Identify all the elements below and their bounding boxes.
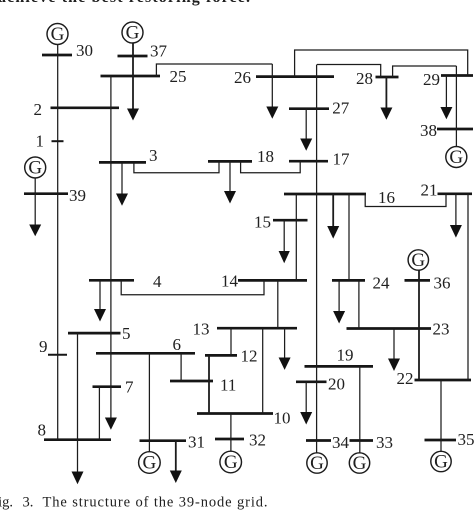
svg-text:The structure of the 39-node g: The structure of the 39-node grid. [43, 495, 268, 511]
load arrow stem on bus 15 [283, 220, 285, 252]
wire line 5-8 and load stem under bus 8 [77, 333, 79, 472]
bus 27 [289, 107, 329, 110]
load arrow stem on bus 18 [229, 161, 231, 192]
load arrow on bus 7 column [105, 418, 117, 430]
load arrow stem on bus 13 [284, 328, 286, 358]
svg-text:G: G [28, 158, 42, 179]
svg-text:13: 13 [193, 320, 210, 339]
svg-text:15: 15 [254, 213, 271, 232]
load arrow stem on bus 4 [99, 280, 101, 310]
svg-text:19: 19 [337, 346, 354, 365]
bus 7 [93, 385, 122, 388]
wire 10-32 to G32 [230, 414, 232, 452]
generator G36 [408, 250, 428, 271]
svg-text:4: 4 [153, 272, 162, 291]
bus 36 [405, 279, 431, 282]
svg-text:23: 23 [433, 320, 450, 339]
wire 29-38 to G38 [455, 66, 457, 147]
svg-text:3.: 3. [23, 495, 34, 511]
wire long vertical 26-27-17-16-19-20-34 to G34 [316, 65, 318, 454]
wire G37 stem through bus 37 and bus 25 [132, 43, 134, 110]
load arrow on bus 16 [327, 226, 339, 239]
bus 2 [51, 106, 120, 109]
wire G36-23-22 vertical [418, 270, 420, 380]
svg-text:G: G [411, 250, 425, 271]
load arrow on bus 31 [170, 471, 182, 484]
bus 25 [101, 75, 161, 78]
generator G37 [122, 22, 143, 44]
bus 14 [238, 279, 307, 282]
bus 30 [42, 54, 72, 57]
wire line 21-22 [467, 194, 469, 380]
bus 22 [415, 379, 472, 382]
svg-text:28: 28 [356, 69, 373, 88]
svg-text:27: 27 [332, 99, 350, 118]
svg-text:22: 22 [397, 369, 414, 388]
wire line 13-10 [262, 328, 264, 413]
bus 6 [96, 352, 195, 355]
bus 24 [332, 279, 365, 282]
svg-text:G: G [51, 24, 65, 45]
generator G39 [25, 157, 46, 179]
load arrow on bus 4 [94, 309, 106, 322]
load arrow stem on bus 21 [455, 194, 457, 226]
load arrow on bus 39 [29, 225, 41, 237]
load arrow on bus 26 [266, 107, 278, 119]
wire line 26-29 top loop [295, 50, 468, 77]
bus 12 [205, 354, 237, 357]
bus 35 [425, 439, 457, 442]
svg-text:G: G [310, 453, 324, 474]
wire 26 drop and load stem [271, 64, 273, 108]
svg-text:18: 18 [257, 147, 274, 166]
wire 2-25 long vertical through buses 2,3,4,5,6 to bus 7 load [110, 76, 112, 419]
bus 8 [44, 438, 111, 441]
bus 38 [437, 128, 473, 131]
svg-text:1: 1 [36, 132, 45, 151]
bus 32 [215, 438, 244, 441]
wire line 4-14 [121, 280, 264, 295]
svg-text:14: 14 [221, 272, 239, 291]
load arrow stem on bus 31 [175, 441, 177, 472]
generator G35 [431, 451, 451, 472]
load arrow stem on bus 23 [393, 329, 395, 360]
svg-text:Fig.: Fig. [0, 495, 13, 511]
wire line 28-29 [393, 66, 457, 77]
load arrow stem on bus 3 [121, 162, 123, 194]
bus 26 [256, 75, 334, 78]
svg-text:17: 17 [333, 150, 351, 169]
bus 18 [208, 160, 252, 163]
bus 4 [89, 279, 134, 282]
load arrow on bus 15 [279, 251, 290, 263]
svg-text:29: 29 [423, 70, 440, 89]
wire line 13-12 [230, 328, 232, 355]
svg-text:24: 24 [373, 274, 391, 293]
svg-text:G: G [449, 147, 463, 168]
svg-text:39: 39 [69, 186, 86, 205]
wire line 3-18 [134, 161, 219, 172]
wire 6-31 to G31 [148, 353, 150, 451]
bus 5 [68, 332, 121, 335]
svg-text:5: 5 [122, 324, 131, 343]
load arrow on bus 18 [224, 191, 236, 204]
bus 13 [217, 327, 297, 330]
svg-text:G: G [224, 452, 238, 473]
bus 39 [24, 192, 68, 195]
wire 19-33 to G33 [359, 366, 361, 452]
load arrow stem on bus 28 [385, 77, 387, 109]
svg-text:21: 21 [421, 181, 438, 200]
svg-text:30: 30 [76, 41, 93, 60]
load arrow stem on bus 20 [305, 382, 307, 413]
bus 17 [289, 160, 328, 163]
svg-text:8: 8 [38, 421, 47, 440]
svg-text:34: 34 [332, 433, 350, 452]
generator G32 [220, 451, 242, 473]
wire line 25-26 [156, 64, 272, 76]
load arrow stem on bus 16 [332, 194, 334, 227]
wire line 24-23 [358, 280, 360, 328]
svg-text:9: 9 [39, 337, 48, 356]
svg-text:16: 16 [378, 188, 395, 207]
generator G31 [139, 452, 161, 474]
svg-text:G: G [434, 452, 448, 473]
svg-text:7: 7 [125, 378, 134, 397]
load arrow under bus 8 [72, 472, 84, 485]
wire G30 to bus 30 and long left vertical through buses 2,1,39,9 to bus 8 [57, 45, 59, 440]
wire line 18-17 [241, 161, 301, 173]
svg-text:38: 38 [420, 121, 437, 140]
svg-text:6: 6 [173, 335, 182, 354]
svg-text:12: 12 [241, 347, 258, 366]
bus 10 [197, 412, 273, 415]
bus 20 [296, 380, 327, 383]
svg-text:G: G [126, 23, 140, 44]
wire line 16-24 [348, 194, 350, 280]
wire line 26-28 [317, 65, 381, 78]
load arrow on bus 24 [333, 311, 345, 324]
bus 16 [284, 193, 366, 196]
wire 22-35 to G35 [440, 380, 442, 451]
load arrow on bus 21 [450, 225, 462, 238]
load arrow on bus 3 [116, 194, 128, 206]
svg-text:26: 26 [234, 68, 251, 87]
load arrow stem on bus 27 [305, 109, 307, 140]
svg-text:2: 2 [34, 100, 43, 119]
wire line 6-11 [180, 353, 182, 381]
svg-text:achieve the best restoring for: achieve the best restoring force. [0, 0, 250, 6]
bus 1 [52, 140, 64, 142]
svg-text:37: 37 [150, 42, 168, 61]
svg-text:G: G [143, 453, 157, 474]
load arrow under bus 25 (37 column) [127, 109, 139, 121]
bus 28 [376, 76, 399, 79]
svg-text:11: 11 [220, 376, 236, 395]
load arrow stem on bus 24 [338, 280, 340, 312]
bus 31 [140, 439, 187, 442]
generator G33 [349, 453, 369, 474]
svg-text:20: 20 [328, 375, 345, 394]
bus 21 [438, 192, 473, 195]
bus 29 [441, 74, 473, 77]
load arrow on bus 20 [300, 412, 312, 425]
wire G39 stem through bus 39 [34, 178, 36, 226]
load arrow on bus 29 [440, 107, 452, 119]
load arrow on bus 23 [388, 359, 400, 372]
bus 37 [118, 55, 148, 58]
load arrow on bus 28 [380, 108, 392, 120]
svg-text:25: 25 [170, 67, 187, 86]
bus 15 [273, 219, 308, 222]
bus 19 [305, 365, 374, 368]
wire 16-15-14 vertical [295, 194, 297, 280]
bus 11 [170, 380, 213, 383]
svg-text:33: 33 [376, 433, 393, 452]
generator G38 [446, 147, 467, 169]
load arrow stem on bus 29 [445, 76, 447, 109]
bus 9 [48, 354, 67, 356]
svg-text:36: 36 [434, 274, 451, 293]
wire line 12-11-10 [208, 355, 210, 413]
bus 34 [306, 439, 331, 442]
generator G30 [47, 24, 68, 46]
svg-text:31: 31 [188, 433, 205, 452]
svg-text:32: 32 [249, 431, 266, 450]
svg-text:G: G [353, 453, 367, 474]
bus 33 [350, 439, 374, 442]
load arrow on bus 27 [300, 139, 312, 151]
load arrow on bus 13 [279, 358, 291, 370]
wire line 14-13 [277, 280, 279, 328]
svg-text:10: 10 [274, 409, 291, 428]
wire line 7-8 [98, 387, 100, 440]
svg-text:3: 3 [149, 146, 158, 165]
svg-text:35: 35 [458, 430, 474, 449]
bus 3 [99, 161, 146, 164]
wire line 16-21 [365, 194, 446, 207]
generator G34 [307, 453, 327, 474]
bus 23 [347, 327, 432, 330]
